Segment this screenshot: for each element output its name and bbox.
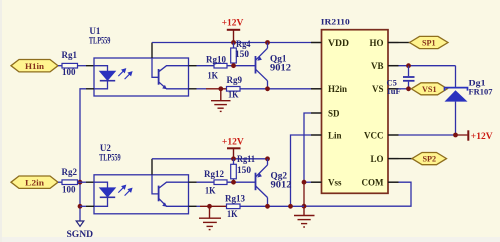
capacitor C5 xyxy=(387,66,415,96)
wire ground net maroon segment lower xyxy=(200,205,227,207)
wire HO to SP1 xyxy=(399,42,411,44)
junction rail2/Rg11 xyxy=(231,156,236,161)
junction ground node top xyxy=(218,86,223,91)
pin stub U2 anode xyxy=(86,181,94,183)
svg-text:SGND: SGND xyxy=(67,229,94,239)
svg-text:TLP559: TLP559 xyxy=(99,152,121,162)
junction Vss/SD xyxy=(302,180,307,185)
wire COM loop xyxy=(304,182,411,206)
wire Rg10 line xyxy=(197,65,215,67)
svg-text:Rg13: Rg13 xyxy=(225,194,245,204)
U1 phototransistor xyxy=(152,43,189,90)
svg-text:VS1: VS1 xyxy=(422,85,437,94)
junction VCC/diode xyxy=(453,133,458,138)
junction cathode/U2 node xyxy=(78,204,83,209)
wire Vss xyxy=(304,181,311,183)
svg-text:TLP559: TLP559 xyxy=(89,35,111,45)
pin stub U1 anode xyxy=(86,65,94,67)
wire L2in to Rg2 xyxy=(58,181,62,183)
bottom edge strip xyxy=(0,237,500,242)
svg-text:Lin: Lin xyxy=(328,130,342,140)
junction COM/ground xyxy=(302,204,307,209)
transistor Qg2 9012 xyxy=(256,159,293,206)
junction ground node lower xyxy=(207,204,212,209)
svg-text:Vss: Vss xyxy=(328,178,342,188)
wire Rg1 to U1 xyxy=(78,65,87,67)
svg-text:SD: SD xyxy=(328,108,340,118)
svg-text:Rg4: Rg4 xyxy=(236,39,251,49)
junction Rg11 bottom xyxy=(231,180,236,185)
wire ground net maroon segment xyxy=(206,88,227,90)
junction rail2/Qg2 emitter xyxy=(265,156,270,161)
power port SGND xyxy=(67,221,94,239)
port SP2 xyxy=(412,153,447,165)
optocoupler U1 TLP559 xyxy=(89,26,189,96)
svg-text:FR107: FR107 xyxy=(469,87,494,97)
wire Rg9 to H2in xyxy=(240,88,311,90)
svg-text:1K: 1K xyxy=(228,90,239,100)
wire emitter line blue xyxy=(197,88,207,90)
resistor Rg10 xyxy=(206,54,227,80)
svg-text:SP2: SP2 xyxy=(422,155,436,164)
resistor Rg2 xyxy=(62,167,78,195)
svg-text:VDD: VDD xyxy=(328,38,350,48)
wire VCC to +12V xyxy=(399,134,456,136)
wire VS to VS1 xyxy=(399,88,412,90)
ground earth top xyxy=(211,89,231,112)
svg-text:1uF: 1uF xyxy=(387,86,401,96)
svg-text:Rg9: Rg9 xyxy=(227,75,243,85)
wire U1 cathode to SGND vertical xyxy=(80,89,86,221)
junction rail/Qg1 emitter xyxy=(265,40,270,45)
svg-text:1K: 1K xyxy=(205,186,216,196)
port L2in xyxy=(11,176,58,188)
U2 light arrows xyxy=(118,185,132,195)
svg-text:100: 100 xyxy=(62,185,76,195)
optocoupler U2 TLP559 xyxy=(94,143,189,214)
IC IR2110 xyxy=(321,17,388,194)
pin stub U1 collector out xyxy=(189,65,197,67)
junction VS/C5 xyxy=(406,86,411,91)
junction Qg2 collector xyxy=(265,204,270,209)
+12V power bar lower xyxy=(222,138,244,159)
resistor Rg13 xyxy=(225,194,245,219)
U1 light arrows xyxy=(118,69,132,79)
resistor Rg9 xyxy=(227,75,243,100)
junction rail/Rg4 xyxy=(231,40,236,45)
U1 LED xyxy=(94,66,115,89)
svg-text:1K: 1K xyxy=(208,70,219,80)
port SP1 xyxy=(410,36,449,48)
svg-text:Rg1: Rg1 xyxy=(62,50,78,60)
svg-text:+12V: +12V xyxy=(222,138,244,148)
svg-text:1K: 1K xyxy=(227,209,238,219)
wire LO to SP2 xyxy=(399,158,413,160)
pin stub U2 cathode xyxy=(86,205,94,207)
resistor Rg1 xyxy=(62,50,78,77)
svg-text:VS: VS xyxy=(372,84,384,94)
wire Rg13 to COM line xyxy=(240,205,304,207)
pin stub U2 collector out xyxy=(189,181,197,183)
junction cathode/Rg2 node xyxy=(78,180,83,185)
pin stub U1 cathode xyxy=(86,88,94,90)
svg-text:H1in: H1in xyxy=(25,62,44,71)
svg-text:9012: 9012 xyxy=(271,179,293,189)
wire H1in to Rg1 xyxy=(58,65,62,67)
ground earth lower xyxy=(199,206,221,229)
wire Lin xyxy=(291,135,312,206)
svg-text:L2in: L2in xyxy=(25,178,45,187)
pin stubs IR2110 left xyxy=(311,43,322,183)
wire Rg2 to U2 xyxy=(78,181,87,183)
wire VB xyxy=(399,65,456,67)
resistor Rg4 xyxy=(231,39,251,66)
svg-text:VCC: VCC xyxy=(364,130,384,140)
wire Rg12 to Qg2 base xyxy=(227,181,256,183)
svg-text:HO: HO xyxy=(369,38,383,48)
svg-text:+12V: +12V xyxy=(471,132,493,142)
svg-text:Rg12: Rg12 xyxy=(204,169,224,179)
diode Dg1 FR107 xyxy=(445,66,494,135)
svg-text:+12V: +12V xyxy=(222,19,244,29)
junction Rg4 bottom xyxy=(231,63,236,68)
port VS1 xyxy=(411,83,447,95)
pin stubs IR2110 right xyxy=(388,43,399,183)
wire emitter line blue lower xyxy=(197,205,201,207)
svg-text:9012: 9012 xyxy=(270,62,292,72)
svg-text:150: 150 xyxy=(235,49,250,59)
pin stub U2 emitter out xyxy=(189,205,197,207)
+12V power bar top xyxy=(222,19,244,43)
svg-text:LO: LO xyxy=(370,154,383,164)
pin stub U1 emitter out xyxy=(189,88,197,90)
junction VB/C5 xyxy=(406,63,411,68)
port H1in xyxy=(11,60,58,72)
svg-text:VB: VB xyxy=(371,61,384,71)
U2 phototransistor xyxy=(152,159,189,207)
svg-text:100: 100 xyxy=(62,67,76,77)
wire +12V rail lower xyxy=(152,158,268,160)
resistor Rg11 xyxy=(231,154,256,182)
svg-text:Rg2: Rg2 xyxy=(62,167,78,177)
wire U2 cathode to vertical xyxy=(80,205,86,207)
wire Rg10 to Qg1 base xyxy=(227,65,256,67)
wire Rg12 line xyxy=(197,181,215,183)
wire SD ground stub maroon xyxy=(303,182,305,206)
svg-text:H2in: H2in xyxy=(328,84,347,94)
svg-text:IR2110: IR2110 xyxy=(321,17,351,27)
svg-text:Rg10: Rg10 xyxy=(206,54,226,64)
+12V power bar right xyxy=(468,130,492,142)
junction Lin tap xyxy=(288,204,293,209)
svg-text:Rg11: Rg11 xyxy=(237,154,255,164)
U2 LED xyxy=(94,182,115,206)
svg-text:150: 150 xyxy=(237,165,252,175)
svg-text:SP1: SP1 xyxy=(422,39,436,48)
svg-text:COM: COM xyxy=(362,178,385,188)
wire +12V rail top xyxy=(152,42,311,44)
wire SD xyxy=(304,113,311,182)
resistor Rg12 xyxy=(204,169,227,196)
transistor Qg1 9012 xyxy=(256,43,292,89)
junction Qg1 collector xyxy=(265,86,270,91)
ground earth right xyxy=(294,206,315,227)
